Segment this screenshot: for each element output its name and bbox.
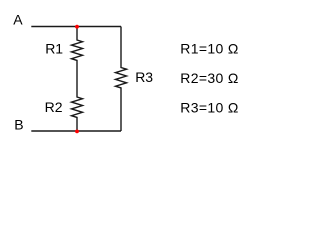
svg-text:A: A [13, 12, 23, 28]
svg-text:R2=30 Ω: R2=30 Ω [180, 70, 238, 86]
svg-text:R1: R1 [45, 41, 63, 57]
svg-text:R1=10 Ω: R1=10 Ω [180, 40, 238, 56]
svg-text:R3=10 Ω: R3=10 Ω [180, 100, 238, 116]
svg-text:B: B [14, 116, 23, 132]
svg-text:R3: R3 [135, 69, 153, 85]
svg-text:R2: R2 [45, 99, 63, 115]
